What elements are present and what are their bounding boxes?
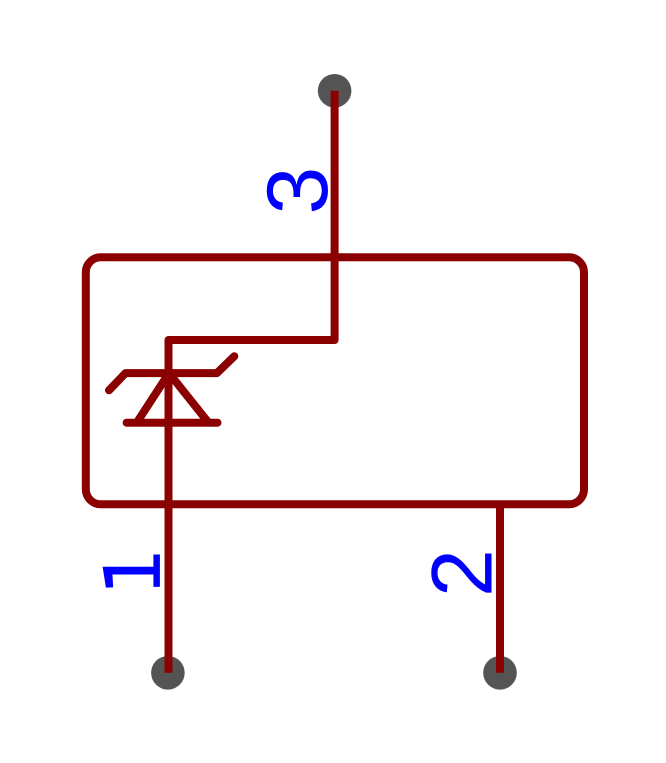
svg-text:2: 2	[415, 549, 511, 597]
svg-text:3: 3	[250, 167, 346, 215]
